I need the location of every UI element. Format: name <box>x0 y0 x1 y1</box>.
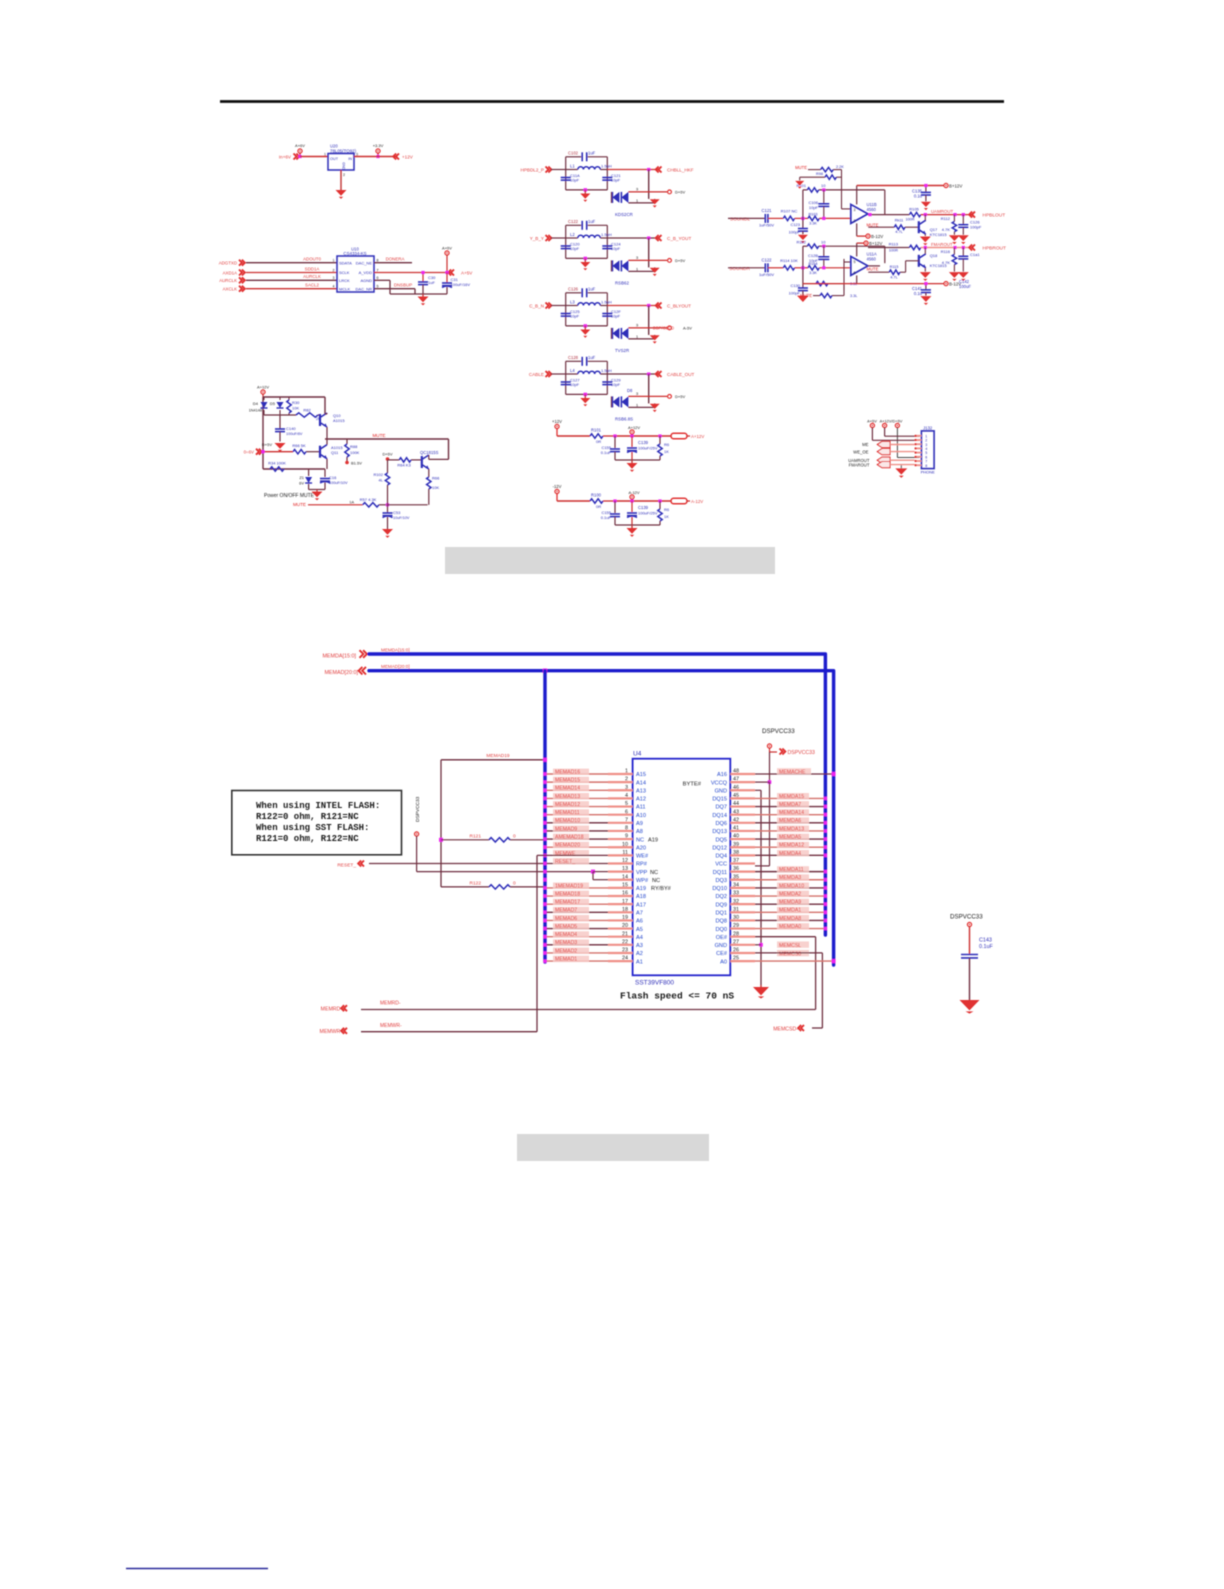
svg-text:10: 10 <box>821 183 826 188</box>
capacitor C30 1uF <box>418 271 436 294</box>
wire mid row power block <box>264 415 296 429</box>
svg-text:R121: R121 <box>470 833 482 839</box>
svg-text:1uF/50V: 1uF/50V <box>759 272 774 277</box>
svg-text:R122: R122 <box>470 880 482 886</box>
svg-text:IN: IN <box>348 157 352 161</box>
flash U4 right pin stubs <box>730 769 755 962</box>
svg-text:MEMAD18: MEMAD18 <box>555 891 580 897</box>
power flag B1.5V <box>345 461 362 466</box>
svg-text:DQ3: DQ3 <box>715 878 727 884</box>
svg-text:DQ0: DQ0 <box>715 927 727 933</box>
svg-text:MUTE: MUTE <box>800 293 812 298</box>
svg-text:4.7K: 4.7K <box>942 227 951 232</box>
svg-text:Flash speed <= 70 nS: Flash speed <= 70 nS <box>620 991 734 1002</box>
transistor Q17 KTC1815 <box>919 215 948 237</box>
wire AGND down <box>374 280 390 294</box>
Q18 base route <box>900 261 919 272</box>
svg-text:MEMAD15: MEMAD15 <box>555 778 580 784</box>
svg-text:11: 11 <box>622 850 628 856</box>
wire DAC_NE output <box>374 256 412 262</box>
ground Q17 <box>920 237 931 246</box>
wire filter 4 input <box>551 373 566 375</box>
mute resistor R115 <box>867 265 900 279</box>
svg-text:R105: R105 <box>909 207 919 212</box>
svg-text:J132: J132 <box>923 425 933 430</box>
svg-text:SOUNDL: SOUNDL <box>730 216 750 222</box>
svg-text:39: 39 <box>733 842 739 848</box>
svg-text:FMAROUT: FMAROUT <box>931 242 953 247</box>
wire filtered rail -12V <box>613 499 671 502</box>
svg-text:D+5V: D+5V <box>675 190 685 195</box>
ground C140 <box>262 442 286 452</box>
svg-text:-12V: -12V <box>553 484 562 489</box>
svg-text:100pF: 100pF <box>789 230 801 235</box>
signal arrow ME <box>862 441 914 447</box>
svg-text:48: 48 <box>733 769 739 775</box>
output net HPBROUT <box>969 245 1006 252</box>
svg-text:CHBLL_HKF: CHBLL_HKF <box>667 168 694 173</box>
svg-text:DSPVCC33: DSPVCC33 <box>762 728 795 735</box>
svg-text:1.5uH: 1.5uH <box>601 232 612 237</box>
svg-text:MEMDA5: MEMDA5 <box>779 834 801 840</box>
svg-text:2: 2 <box>625 777 628 783</box>
flash U4 BYTE# label <box>683 781 702 787</box>
svg-text:MEMAD11: MEMAD11 <box>555 810 580 816</box>
svg-text:B+12V: B+12V <box>869 241 882 246</box>
svg-text:SCLK: SCLK <box>339 270 350 275</box>
svg-text:0R: 0R <box>596 439 601 444</box>
opamp power rail B+12V <box>857 183 963 204</box>
DAC input AXCLK <box>223 286 245 292</box>
net label MEMWR <box>320 1023 402 1035</box>
svg-text:100uF/16V: 100uF/16V <box>451 282 471 287</box>
net label power-down input <box>244 449 262 455</box>
svg-text:DQ14: DQ14 <box>712 813 727 819</box>
wire top rail power block <box>263 397 325 469</box>
resistor R122 0 <box>441 880 545 889</box>
transistor Q18 KTC1815 <box>919 248 948 272</box>
capacitor C126 1uF <box>568 286 596 297</box>
wire bottom rail -12V <box>615 524 660 526</box>
wire filter 4 output <box>607 372 659 403</box>
svg-text:8: 8 <box>377 259 379 263</box>
svg-text:PHONE: PHONE <box>921 470 936 475</box>
ground C130 arrow <box>797 296 809 302</box>
svg-text:MEMAD10: MEMAD10 <box>555 818 580 824</box>
output resistor R113 100R <box>868 242 972 253</box>
ferrite bead -12V <box>671 498 703 504</box>
audio input net SOUNDR <box>729 266 750 272</box>
svg-text:MEMRD-: MEMRD- <box>380 1001 401 1007</box>
svg-text:WE#: WE# <box>636 854 649 860</box>
wire A16 to address bus <box>755 768 836 776</box>
svg-text:27: 27 <box>733 939 739 945</box>
svg-text:R101: R101 <box>796 183 806 188</box>
svg-text:100uF/25V: 100uF/25V <box>638 446 658 451</box>
svg-text:A1: A1 <box>636 959 643 965</box>
svg-text:37: 37 <box>733 858 739 864</box>
svg-text:C122: C122 <box>761 257 772 262</box>
svg-text:A10: A10 <box>636 813 646 819</box>
svg-text:DSPVCC33: DSPVCC33 <box>415 796 421 822</box>
svg-text:44: 44 <box>733 801 739 807</box>
net label MEMRD <box>321 1001 401 1013</box>
svg-text:45: 45 <box>733 793 739 799</box>
svg-text:SACL2: SACL2 <box>305 283 319 288</box>
svg-text:3: 3 <box>854 208 856 212</box>
wire to opamp2 + input <box>844 259 850 284</box>
signal arrow WE_OE <box>853 449 914 455</box>
svg-text:WP#: WP# <box>636 878 649 884</box>
ground TVS 1 <box>650 199 660 207</box>
wire filter 1 output <box>607 168 659 199</box>
resistor R7 bleed <box>658 501 670 525</box>
svg-text:1.5uH: 1.5uH <box>601 300 612 305</box>
svg-text:100R: 100R <box>889 249 898 253</box>
svg-text:DQ6: DQ6 <box>715 821 727 827</box>
transistor QC2 C1815 <box>420 450 449 477</box>
svg-text:D+5V: D+5V <box>262 442 272 447</box>
wire filter 2 output <box>607 236 659 267</box>
wire bottom rail +12V <box>615 459 660 461</box>
filter box L3 <box>566 293 608 326</box>
svg-text:10pF: 10pF <box>611 382 621 387</box>
svg-text:D5: D5 <box>270 401 276 406</box>
svg-text:A-5V: A-5V <box>683 326 692 331</box>
svg-text:C121: C121 <box>761 208 772 213</box>
svg-text:AXD1A: AXD1A <box>223 270 237 275</box>
opamp2 minus rail B-12V <box>803 275 971 289</box>
svg-text:4.7L: 4.7L <box>890 275 897 279</box>
svg-text:B-12V: B-12V <box>871 234 883 239</box>
svg-text:29: 29 <box>733 923 739 929</box>
wire filter 2 input <box>551 237 566 239</box>
ground C143 <box>960 1000 980 1014</box>
svg-text:A14: A14 <box>636 780 646 786</box>
ground R112 <box>949 235 960 244</box>
svg-text:AXCLK: AXCLK <box>223 287 237 292</box>
power flag A+6V <box>295 143 305 158</box>
svg-text:100uF/10V: 100uF/10V <box>329 481 348 485</box>
resistor R57 4.7K <box>360 497 388 507</box>
svg-text:25: 25 <box>733 956 739 962</box>
mute resistor R98 <box>795 172 841 189</box>
svg-text:3: 3 <box>636 256 638 260</box>
svg-text:8: 8 <box>625 826 628 832</box>
ground C141 <box>920 296 931 305</box>
svg-text:RY/BY#: RY/BY# <box>651 886 672 892</box>
svg-text:MEMDA8: MEMDA8 <box>779 916 801 922</box>
TVS diode pair D7 <box>611 323 667 353</box>
svg-text:OE#: OE# <box>716 935 728 941</box>
svg-text:A8: A8 <box>636 829 643 835</box>
ground R116 <box>949 272 960 281</box>
svg-text:1: 1 <box>636 335 638 339</box>
svg-text:33: 33 <box>733 891 739 897</box>
ground TVS 2 <box>650 268 660 276</box>
svg-text:4L: 4L <box>379 478 384 483</box>
filter input net CABLE <box>529 371 551 377</box>
svg-text:3: 3 <box>636 323 638 327</box>
svg-text:DNSBUP: DNSBUP <box>394 282 412 287</box>
svg-text:AMEMAD18: AMEMAD18 <box>555 834 584 840</box>
svg-text:3: 3 <box>625 785 628 791</box>
svg-text:R114 10K: R114 10K <box>780 258 798 263</box>
svg-text:HPBLOUT: HPBLOUT <box>983 213 1006 219</box>
svg-text:+3.3V: +3.3V <box>373 143 384 148</box>
mute resistor R99 <box>803 281 857 290</box>
svg-text:6: 6 <box>625 809 628 815</box>
svg-text:RP#: RP# <box>636 862 648 868</box>
capacitor C12B 10pF <box>808 246 829 268</box>
svg-text:Rk11: Rk11 <box>895 218 904 222</box>
capacitor C124 10pF <box>602 242 621 252</box>
svg-text:SST39VF800: SST39VF800 <box>635 980 674 987</box>
svg-text:100pF: 100pF <box>789 291 801 296</box>
filter input net Y_B_Y <box>530 235 552 241</box>
svg-text:MEMAD17: MEMAD17 <box>555 900 580 906</box>
svg-text:MEMDA6: MEMDA6 <box>779 818 801 824</box>
svg-text:D+5V: D+5V <box>675 394 685 399</box>
svg-text:20: 20 <box>622 923 628 929</box>
svg-text:4.7K: 4.7K <box>942 260 951 265</box>
svg-text:VCC: VCC <box>715 862 727 868</box>
svg-text:A16: A16 <box>717 772 727 778</box>
diode D5 1N4148 <box>270 397 284 415</box>
ferrite bead +12V <box>671 433 704 439</box>
svg-text:4: 4 <box>625 793 628 799</box>
resistor R114 10K <box>780 258 808 270</box>
resistor R101fb <box>796 183 826 192</box>
svg-text:MEMDA15: MEMDA15 <box>779 794 804 800</box>
svg-text:DQ9: DQ9 <box>715 902 727 908</box>
svg-text:MEMDA2: MEMDA2 <box>779 891 801 897</box>
svg-text:SOUNDR: SOUNDR <box>729 266 750 272</box>
capacitor C53 <box>383 505 410 529</box>
flash U4 left pin names <box>636 772 672 965</box>
wire audio in L <box>728 217 765 219</box>
svg-text:16: 16 <box>622 891 628 897</box>
wire A_VDD to A+5V <box>374 270 473 276</box>
svg-text:5: 5 <box>854 260 856 264</box>
svg-text:3: 3 <box>333 276 335 280</box>
svg-text:34: 34 <box>733 882 739 888</box>
svg-text:1: 1 <box>324 153 326 157</box>
capacitor C140 <box>275 426 303 442</box>
svg-text:R66 5K: R66 5K <box>292 443 306 448</box>
net label RESET_ <box>337 861 364 869</box>
svg-text:1K: 1K <box>664 449 669 454</box>
svg-text:3.3K: 3.3K <box>809 271 817 275</box>
svg-text:MEMDA10: MEMDA10 <box>779 883 804 889</box>
power flag third connector <box>895 423 899 457</box>
feedback wire R <box>803 245 885 268</box>
svg-text:0.1u: 0.1u <box>914 291 923 296</box>
svg-text:Z1: Z1 <box>299 475 304 480</box>
opamp2 power rail <box>857 241 883 256</box>
capacitor C16 <box>320 469 348 490</box>
wire filter 3 input <box>551 305 566 307</box>
note box INTEL/SST flash <box>232 791 402 855</box>
signal arrow UAMROUT <box>848 457 914 463</box>
svg-text:R102: R102 <box>373 472 383 477</box>
svg-text:Power ON/OFF MUTE: Power ON/OFF MUTE <box>264 493 315 499</box>
resistor R121 0 <box>439 833 545 842</box>
resistor R6 bleed <box>658 436 670 460</box>
wire to opamp + input <box>842 170 851 209</box>
svg-text:MEMDA12: MEMDA12 <box>779 843 804 849</box>
svg-text:+12V: +12V <box>552 419 562 424</box>
svg-text:10uF/10V: 10uF/10V <box>393 516 410 520</box>
svg-text:18: 18 <box>622 907 628 913</box>
svg-text:1: 1 <box>636 267 638 271</box>
svg-text:D+5V: D+5V <box>382 452 392 457</box>
ground C53 <box>382 529 393 538</box>
op-amp U11A 4560 <box>851 251 877 275</box>
zener Z1 <box>299 469 312 490</box>
redaction bar 1 <box>445 547 775 574</box>
svg-text:46: 46 <box>733 785 739 791</box>
svg-text:10pF: 10pF <box>570 314 580 319</box>
svg-text:MEMAD13: MEMAD13 <box>555 794 580 800</box>
op-amp U11B 4560 <box>851 202 877 223</box>
svg-text:R116: R116 <box>941 249 951 254</box>
ground power block <box>312 490 323 501</box>
transistor Q11 A1015 <box>320 439 343 469</box>
svg-text:MEMCSD-: MEMCSD- <box>773 1026 798 1032</box>
svg-text:MEMAD9: MEMAD9 <box>555 826 577 832</box>
wire opamp2 out to R113 <box>868 248 880 266</box>
svg-text:R100: R100 <box>591 493 602 498</box>
capacitor C125 10pF <box>561 309 581 319</box>
svg-text:DQ7: DQ7 <box>715 805 727 811</box>
svg-text:SDD1A: SDD1A <box>305 266 320 271</box>
svg-text:MEMDA1: MEMDA1 <box>779 908 801 914</box>
flash right data wires <box>755 797 827 931</box>
text flash speed <box>620 991 734 1002</box>
capacitor C121 10pF <box>602 173 621 183</box>
svg-text:R113: R113 <box>889 242 899 247</box>
mute drive R111 <box>867 218 919 234</box>
svg-text:A-12V: A-12V <box>628 490 639 495</box>
wire DAC_NR <box>374 282 415 294</box>
net labels MEMCSL MEMCS0 <box>777 941 809 957</box>
wire regulator output <box>354 156 396 158</box>
svg-text:MEMCS0: MEMCS0 <box>779 951 801 957</box>
capacitor C11A 10pF <box>561 173 580 183</box>
svg-text:0: 0 <box>513 833 516 839</box>
svg-text:A19: A19 <box>636 886 646 892</box>
svg-text:10K: 10K <box>432 485 439 490</box>
svg-text:MEMACHE: MEMACHE <box>779 769 806 775</box>
svg-text:RESET_: RESET_ <box>337 862 356 868</box>
DAC input AURCLK <box>219 277 245 283</box>
svg-text:A+12V: A+12V <box>691 434 704 439</box>
filter output net C_B_YOUT <box>656 235 692 241</box>
svg-text:A12: A12 <box>636 797 646 803</box>
svg-text:A+12V: A+12V <box>257 385 269 390</box>
resistor R30 10K <box>287 397 300 415</box>
svg-text:3.3L: 3.3L <box>850 294 857 298</box>
inductor L2 <box>566 232 612 238</box>
svg-text:TVS2R: TVS2R <box>615 348 629 353</box>
svg-text:CS4334-KS: CS4334-KS <box>343 251 366 256</box>
filter box L1 <box>566 157 608 190</box>
resistor R66b 10K <box>427 476 441 505</box>
svg-text:ME: ME <box>862 442 868 447</box>
svg-text:A0: A0 <box>720 959 727 965</box>
svg-text:A20: A20 <box>636 845 646 851</box>
svg-text:C140: C140 <box>286 426 296 431</box>
wire VCCQ power <box>755 782 770 866</box>
ground filter 4 <box>580 393 590 407</box>
power flag A+12V/D+5V connector <box>880 419 903 437</box>
redaction bar 2 <box>517 1134 709 1161</box>
power flag filter 4 <box>668 394 686 399</box>
ground C126 <box>958 235 969 244</box>
ground connector <box>895 465 907 478</box>
wire SDD1A to U10 pin 2 <box>246 266 337 272</box>
svg-text:47: 47 <box>733 777 739 783</box>
svg-text:MEMDA11: MEMDA11 <box>779 867 804 873</box>
capacitor C130 100pF <box>789 268 808 296</box>
svg-text:40: 40 <box>733 834 739 840</box>
svg-text:R57 4.3K: R57 4.3K <box>360 497 377 502</box>
power flag filter 1 <box>668 190 686 195</box>
resistor R88 100K <box>345 439 360 461</box>
svg-text:1uF: 1uF <box>428 280 435 285</box>
svg-text:100uF: 100uF <box>959 284 971 289</box>
svg-text:HPBDL2_P: HPBDL2_P <box>521 168 545 173</box>
page top rule <box>220 100 1004 103</box>
svg-text:MEMAD[20:0]: MEMAD[20:0] <box>381 664 410 669</box>
wire filtered rail +12V <box>613 434 671 437</box>
capacitor C135 0.1u <box>912 184 931 201</box>
svg-text:GND: GND <box>342 162 346 170</box>
net label UAMROUT <box>924 209 965 216</box>
capacitor C121 1uF/50V <box>759 208 783 228</box>
svg-text:C143: C143 <box>979 938 992 944</box>
svg-text:A+12V/D+5V: A+12V/D+5V <box>880 419 903 424</box>
ground Q18 <box>920 272 931 281</box>
svg-text:26: 26 <box>733 948 739 954</box>
svg-text:CABLE_OUT: CABLE_OUT <box>667 372 695 377</box>
svg-text:DONERA: DONERA <box>386 256 405 261</box>
svg-text:MEMAD7: MEMAD7 <box>555 908 577 914</box>
TVS diode pair D5 <box>611 187 667 217</box>
svg-text:17: 17 <box>622 899 628 905</box>
svg-text:42: 42 <box>733 817 739 823</box>
wire bottom rail power block <box>263 468 325 470</box>
node audio R junction <box>801 266 804 269</box>
svg-text:+12V: +12V <box>402 155 414 160</box>
svg-text:A2: A2 <box>636 951 643 957</box>
svg-text:8: 8 <box>925 464 927 468</box>
svg-text:SDATA: SDATA <box>339 260 352 265</box>
svg-text:DBP/GELD: DBP/GELD <box>653 326 674 331</box>
svg-text:MEMCSL: MEMCSL <box>779 943 801 949</box>
regulator U20 78L05 <box>324 144 358 171</box>
svg-text:DQ4: DQ4 <box>715 854 727 860</box>
svg-text:A13: A13 <box>636 788 646 794</box>
svg-text:35: 35 <box>733 874 739 880</box>
svg-text:C16: C16 <box>329 475 337 480</box>
svg-text:36: 36 <box>733 866 739 872</box>
capacitor C158 100uF <box>627 501 658 525</box>
net MEMAD19 wire <box>441 753 547 887</box>
capacitor C106 10pF <box>808 190 829 219</box>
svg-text:MEMAD5: MEMAD5 <box>555 924 577 930</box>
